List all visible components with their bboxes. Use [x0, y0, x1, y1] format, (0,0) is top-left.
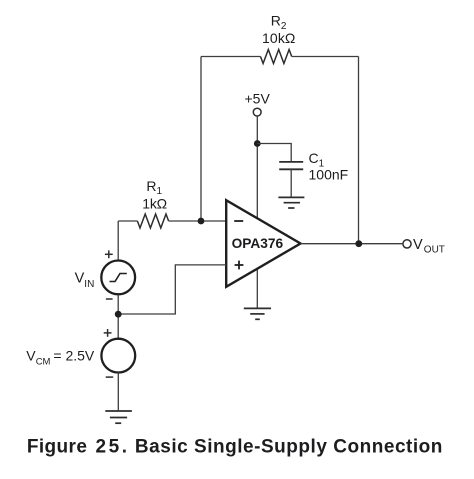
- wire: right feedback vertical (R2 to output node): [358, 57, 360, 244]
- V_CM polarity (-): [106, 376, 114, 378]
- svg-text:10kΩ: 10kΩ: [262, 30, 295, 46]
- junction: inverting input node: [198, 218, 205, 225]
- svg-text:V: V: [413, 237, 423, 253]
- svg-text:100nF: 100nF: [309, 167, 349, 183]
- V_IN polarity (+): [105, 250, 113, 258]
- svg-text:OUT: OUT: [424, 245, 445, 256]
- V_CM polarity (+): [104, 329, 112, 337]
- junction: common-mode node: [115, 311, 122, 318]
- ground (V_CM): [105, 411, 132, 423]
- capacitor C1: [279, 162, 303, 169]
- wire: R1 node down to V_IN: [117, 221, 119, 260]
- ground (C1): [278, 197, 304, 208]
- svg-text:V: V: [75, 271, 85, 287]
- wire: C1 to ground: [290, 169, 292, 197]
- V_IN polarity (-): [106, 298, 113, 300]
- wire: left feedback vertical (R2 to inverting node): [200, 57, 202, 222]
- wire: R1 to inverting input: [169, 220, 227, 222]
- svg-text:V: V: [26, 348, 36, 364]
- svg-text:+5V: +5V: [245, 90, 271, 106]
- wire: op-amp ground pin: [256, 266, 258, 308]
- op-amp U1 OPA376: [226, 200, 300, 287]
- wire: feedback top-left lead to R2: [201, 56, 261, 58]
- wire: R2 right lead to top-right corner: [292, 56, 359, 58]
- wire: V_IN branch to R1: [118, 220, 137, 222]
- resistor R2: [261, 50, 292, 64]
- svg-text:1kΩ: 1kΩ: [142, 196, 167, 212]
- wire: supply node to C1: [257, 144, 291, 162]
- source V_CM: [101, 339, 135, 373]
- wire: non-inverting input path: [118, 265, 226, 314]
- wire: +5V to op-amp V+ pin: [256, 116, 258, 219]
- source V_IN: [101, 261, 135, 295]
- svg-text:IN: IN: [84, 279, 94, 290]
- ground (op-amp): [244, 308, 271, 319]
- resistor R1: [137, 214, 168, 228]
- svg-text:25.: 25.: [96, 436, 128, 457]
- wire: op-amp output: [301, 243, 403, 245]
- svg-text:Basic Single-Supply Connection: Basic Single-Supply Connection: [135, 436, 443, 457]
- junction: supply node: [254, 140, 261, 147]
- wire: V_IN to V_CM node: [117, 295, 119, 339]
- op-amp non-inverting input marker (+): [235, 261, 244, 270]
- terminal: +5V supply: [253, 108, 261, 116]
- svg-text:Figure: Figure: [27, 436, 87, 457]
- op-amp inverting input marker (-): [234, 220, 243, 222]
- svg-text:CM: CM: [36, 357, 51, 368]
- svg-text:OPA376: OPA376: [232, 236, 284, 251]
- wire: V_CM to ground: [117, 372, 119, 410]
- terminal: V_OUT: [403, 240, 411, 248]
- svg-text:= 2.5V: = 2.5V: [53, 348, 95, 364]
- V_IN waveform symbol: [110, 274, 127, 282]
- junction: output node: [355, 240, 362, 247]
